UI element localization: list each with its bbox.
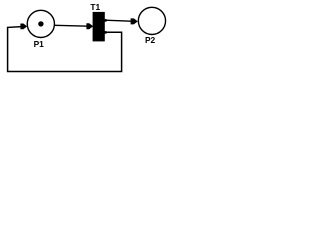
place P1 <box>27 10 54 37</box>
arrowhead into P1 <box>20 24 27 30</box>
svg-text:T1: T1 <box>90 2 100 12</box>
junction nub T1 right edge (loop) <box>104 31 106 34</box>
background <box>0 0 171 81</box>
junction nub T1 right edge (to P2) <box>104 19 106 22</box>
wire T1 to P2 <box>105 20 132 21</box>
arrowhead into T1 <box>86 23 93 29</box>
place P2 <box>138 7 165 34</box>
wire P1 to T1 <box>55 24 89 27</box>
svg-text:P2: P2 <box>145 35 156 45</box>
arrowhead into P2 <box>131 18 138 24</box>
transition T1 <box>93 12 105 42</box>
token in P1 <box>38 21 43 26</box>
wire loop T1 to P1 <box>8 27 122 72</box>
svg-text:P1: P1 <box>34 39 45 49</box>
